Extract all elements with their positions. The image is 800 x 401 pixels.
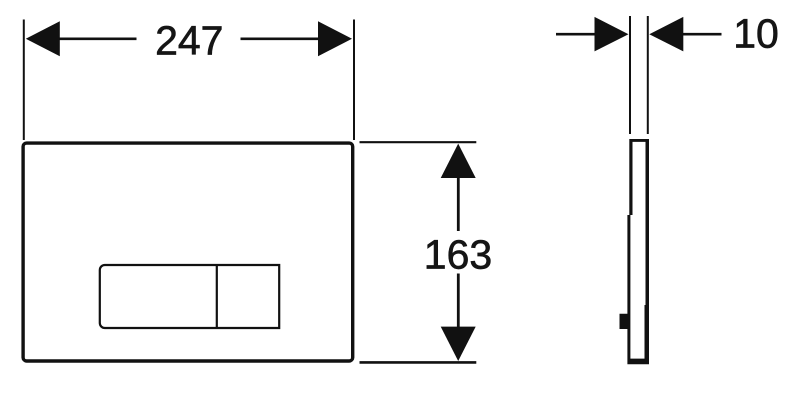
dimension 163 top arrowhead xyxy=(441,144,476,178)
button divider line xyxy=(216,265,218,328)
dimension 247 right arrowhead xyxy=(318,21,352,56)
dimension 247 right extension line xyxy=(353,20,355,141)
dimension 10 value label xyxy=(733,11,779,57)
dimension 247 left arrowhead xyxy=(26,21,60,56)
side view profile xyxy=(620,139,650,364)
dimension 10 left extension line xyxy=(629,16,631,134)
dimension 10 right extension line xyxy=(647,16,649,134)
dimension 163 line upper segment xyxy=(457,176,460,231)
dimension 163 bottom arrowhead xyxy=(441,327,476,361)
svg-text:163: 163 xyxy=(424,231,492,277)
dimension 247 left extension line xyxy=(23,20,25,141)
dimension 247 line right segment xyxy=(241,37,321,40)
plate front view outline xyxy=(23,143,353,361)
dimension 163 value label xyxy=(424,231,492,277)
svg-text:10: 10 xyxy=(733,11,779,57)
dimension 163 top extension line xyxy=(360,141,477,143)
dimension 163 line lower segment xyxy=(457,274,460,328)
dimension 10 right-pointing arrowhead xyxy=(595,17,629,52)
dimension 10 right tail line xyxy=(682,33,722,36)
dimension 10 left tail line xyxy=(556,33,596,36)
dimension 10 left-pointing arrowhead xyxy=(649,17,683,52)
dimension 163 bottom extension line xyxy=(360,361,477,364)
dimension 247 line left segment xyxy=(58,37,137,40)
button group outline xyxy=(100,265,279,328)
dimension 247 value label xyxy=(155,17,223,63)
svg-text:247: 247 xyxy=(155,17,223,63)
